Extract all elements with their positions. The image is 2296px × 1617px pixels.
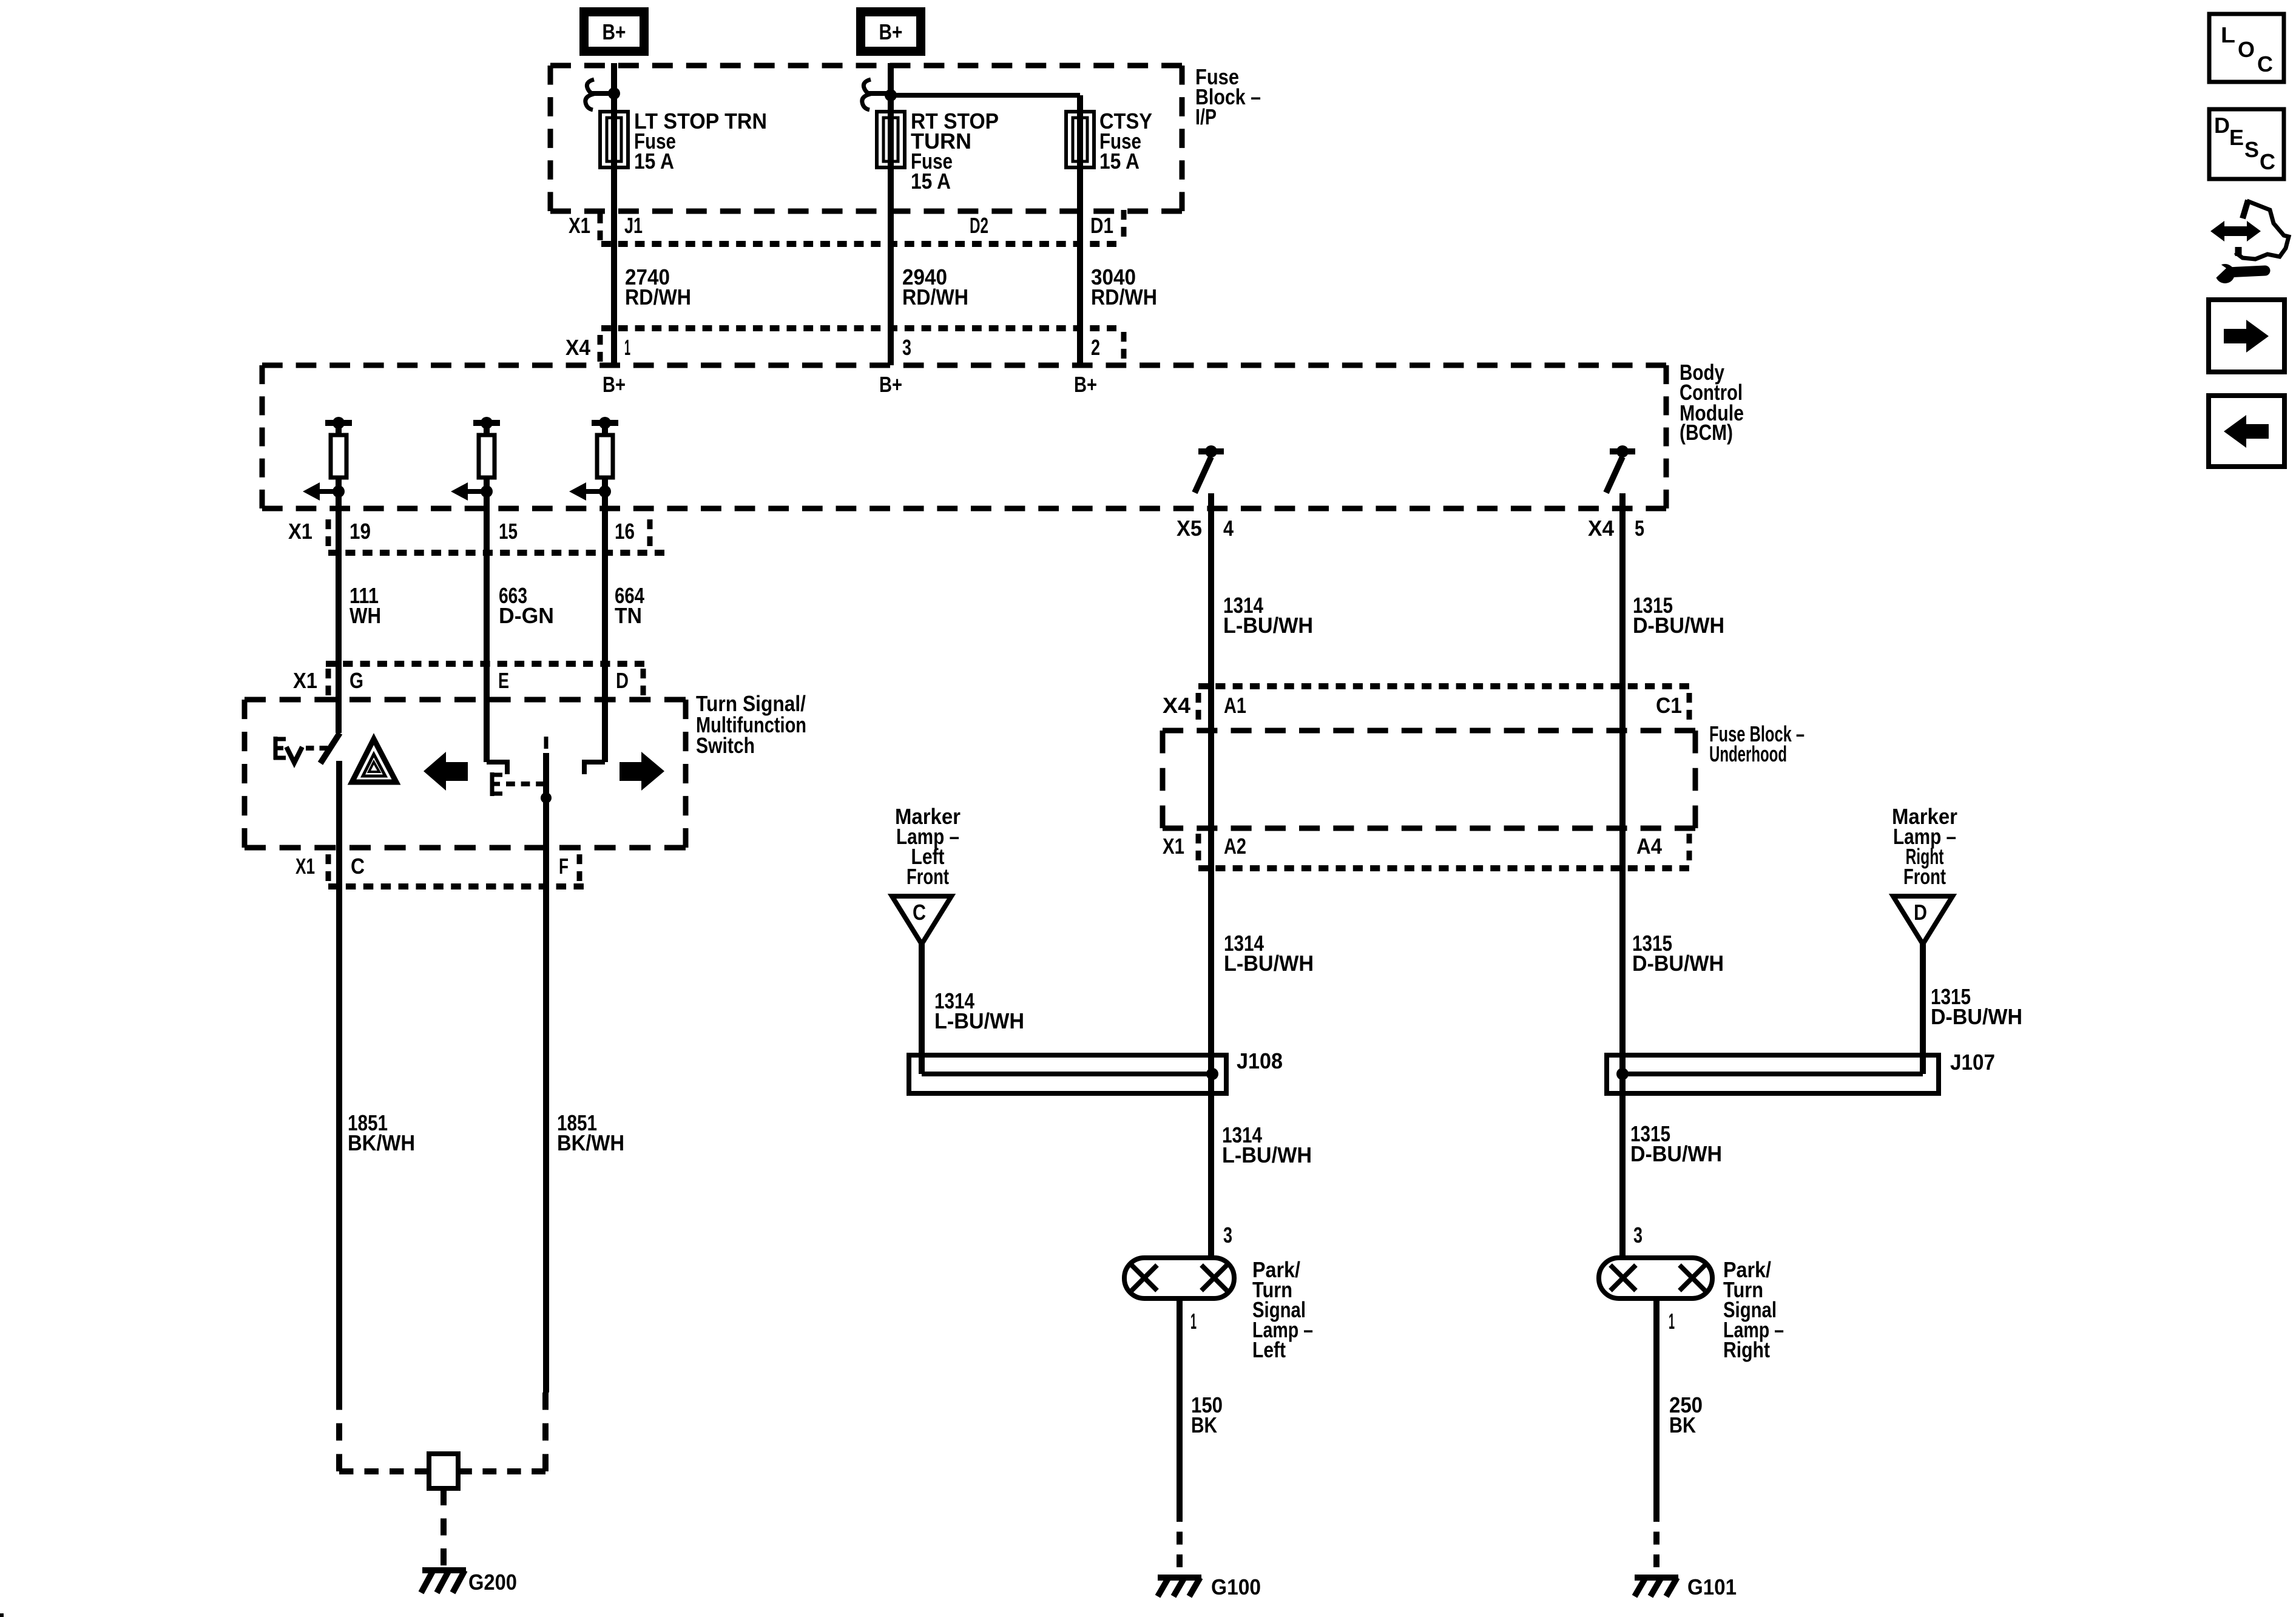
mechanical link dashes — [306, 746, 328, 751]
left-turn switch contact from pin E — [487, 760, 507, 765]
svg-text:X1: X1 — [293, 668, 317, 693]
underhood connector X4 dotted boundary — [1198, 683, 1689, 689]
wire 3040 RD/WH through CTSY fuse to BCM X4-2 — [1077, 95, 1083, 365]
svg-text:TN: TN — [615, 603, 642, 628]
svg-text:J107: J107 — [1950, 1050, 1995, 1075]
svg-text:3: 3 — [902, 335, 911, 360]
svg-text:B+: B+ — [879, 372, 902, 397]
svg-text:Front: Front — [1903, 864, 1946, 889]
right turn arrow (solid) — [620, 752, 664, 791]
junction J107 on wire 1315 — [1616, 1068, 1629, 1080]
svg-text:D-BU/WH: D-BU/WH — [1632, 951, 1724, 976]
svg-text:RD/WH: RD/WH — [625, 285, 691, 309]
svg-text:15 A: 15 A — [911, 169, 951, 194]
svg-text:D1: D1 — [1090, 213, 1113, 238]
svg-text:X4: X4 — [1163, 693, 1190, 718]
wire 1315 D-BU/WH from BCM X4-5 to park/turn lamp right — [1619, 493, 1626, 1258]
fuse holder clip at RT STOP TURN fuse — [862, 79, 871, 110]
svg-text:X1: X1 — [295, 854, 315, 879]
BCM internal driver output to pin 16 — [592, 420, 618, 426]
wire 150 BK from lamp left pin 1 — [1177, 1298, 1183, 1509]
wire 663 D-GN from BCM pin 15 to switch — [484, 511, 490, 762]
wire 2740 RD/WH from B+ through LT STOP TRN fuse to BCM X4-1 — [611, 63, 617, 365]
svg-text:C: C — [2257, 52, 2273, 76]
svg-text:J108: J108 — [1237, 1048, 1283, 1073]
svg-text:J1: J1 — [624, 213, 643, 238]
right tick marks — [641, 669, 646, 695]
sidebar LOC button — [2209, 14, 2284, 82]
dashed lead to G101 — [1653, 1509, 1660, 1567]
svg-text:L: L — [2221, 22, 2235, 47]
svg-text:L-BU/WH: L-BU/WH — [1222, 1143, 1312, 1167]
BCM internal switch to pin X5-4 — [1198, 448, 1224, 454]
svg-text:G101: G101 — [1687, 1575, 1737, 1599]
svg-text:C: C — [913, 900, 926, 925]
svg-text:B+: B+ — [1074, 372, 1097, 397]
dashed horizontal from splice — [458, 1468, 545, 1474]
wire branch to CTSY fuse — [891, 93, 1080, 98]
svg-text:G100: G100 — [1211, 1575, 1261, 1599]
svg-text:D: D — [616, 668, 629, 693]
svg-text:C: C — [351, 854, 365, 879]
svg-text:X1: X1 — [288, 519, 312, 544]
svg-text:C1: C1 — [1656, 693, 1682, 718]
right tick marks — [647, 519, 653, 546]
power terminal B+ (right) — [856, 7, 925, 56]
svg-text:BK/WH: BK/WH — [348, 1130, 415, 1155]
svg-text:Switch: Switch — [696, 733, 755, 758]
ground G200 — [422, 1567, 466, 1573]
svg-text:5: 5 — [1635, 516, 1644, 541]
mechanical link vertical dash — [544, 737, 549, 749]
svg-text:D-BU/WH: D-BU/WH — [1630, 1141, 1722, 1166]
connector X4 tick marks — [598, 335, 603, 362]
svg-text:X5: X5 — [1177, 516, 1202, 541]
svg-text:G: G — [349, 668, 363, 693]
left turn arrow (solid) — [424, 752, 468, 791]
junction at switch common — [541, 792, 552, 803]
Park/Turn Signal Lamp - Left (bulb) — [1124, 1258, 1234, 1298]
svg-text:(BCM): (BCM) — [1680, 420, 1733, 445]
svg-text:G200: G200 — [468, 1570, 517, 1595]
svg-text:1: 1 — [1190, 1309, 1197, 1334]
svg-text:A2: A2 — [1224, 834, 1246, 859]
stray mark — [0, 1613, 4, 1617]
junction J108 on wire 1314 — [1206, 1068, 1218, 1080]
svg-text:19: 19 — [349, 519, 371, 544]
BCM internal driver output to pin 19 — [325, 420, 352, 426]
svg-text:D: D — [2214, 113, 2230, 138]
TS switch lower connector dotted boundary — [328, 883, 584, 890]
power terminal B+ (left) — [579, 7, 649, 56]
TS switch connector X1 dotted boundary — [326, 661, 644, 667]
fuse LT STOP TRN 15A — [600, 112, 628, 167]
wire 250 BK from lamp right pin 1 — [1653, 1298, 1660, 1509]
sidebar back (left arrow) button — [2209, 396, 2284, 467]
svg-text:BK: BK — [1191, 1413, 1217, 1437]
wire 1851 BK/WH from switch common through pin F — [543, 753, 549, 1393]
wire 664 TN from BCM pin 16 to switch — [602, 511, 608, 762]
svg-text:O: O — [2238, 37, 2255, 62]
svg-text:L-BU/WH: L-BU/WH — [934, 1008, 1024, 1033]
Fuse Block - I/P dashed box — [550, 63, 1182, 69]
svg-text:X4: X4 — [1588, 516, 1614, 541]
wire 1851 BK/WH from hazard switch through pin C — [336, 761, 342, 1393]
svg-text:RD/WH: RD/WH — [1091, 285, 1157, 309]
marker lamp left front triangle connector C — [892, 896, 951, 944]
svg-text:BK/WH: BK/WH — [557, 1130, 624, 1155]
svg-text:L-BU/WH: L-BU/WH — [1224, 951, 1314, 976]
right tick marks — [1687, 693, 1692, 720]
svg-text:B+: B+ — [603, 372, 626, 397]
svg-text:D2: D2 — [970, 213, 988, 238]
svg-text:3: 3 — [1633, 1223, 1643, 1247]
svg-text:15 A: 15 A — [634, 149, 674, 174]
svg-text:1: 1 — [624, 335, 630, 360]
svg-text:F: F — [559, 854, 569, 879]
Fuse Block - Underhood dashed box — [1163, 728, 1695, 734]
connector X4 dotted boundary — [601, 325, 1116, 331]
sidebar next (right arrow) button — [2209, 300, 2284, 372]
junction at RT STOP TURN feed — [885, 89, 897, 101]
splice J108 — [909, 1055, 1226, 1093]
marker lamp right front triangle connector D — [1893, 896, 1953, 944]
BCM X1 connector dotted boundary — [328, 550, 664, 556]
svg-text:3: 3 — [1223, 1223, 1232, 1247]
svg-text:B+: B+ — [603, 19, 626, 44]
svg-text:Right: Right — [1723, 1337, 1770, 1362]
hazard warning triangle symbol — [352, 739, 396, 782]
svg-text:E: E — [2229, 125, 2244, 150]
svg-text:A1: A1 — [1224, 693, 1246, 718]
right tick marks — [1687, 834, 1692, 860]
ground G100 — [1158, 1575, 1201, 1581]
Body Control Module (BCM) dashed box — [262, 363, 1666, 368]
wire 1314 L-BU/WH from BCM X5-4 to park/turn lamp left — [1208, 493, 1214, 1258]
svg-text:D-BU/WH: D-BU/WH — [1931, 1004, 2022, 1029]
dashed lead to G100 — [1177, 1509, 1183, 1567]
svg-text:X1: X1 — [569, 213, 590, 238]
Turn Signal/Multifunction Switch dashed box — [245, 697, 686, 703]
svg-text:D-GN: D-GN — [499, 603, 554, 628]
wire 2940 RD/WH from B+ through RT STOP TURN fuse to BCM X4-3 — [888, 63, 894, 365]
fuse RT STOP TURN 15A — [877, 112, 905, 167]
splice/connector block — [429, 1454, 458, 1488]
svg-text:X4: X4 — [566, 335, 590, 360]
right tick marks — [577, 854, 582, 881]
connector X1 dotted boundary — [601, 241, 1116, 247]
svg-text:Front: Front — [907, 864, 949, 889]
sidebar diagnostic icon: double arrow, outline, wrench — [2210, 221, 2261, 241]
wire clip to junction — [866, 91, 891, 96]
svg-text:BK: BK — [1669, 1413, 1696, 1437]
wire 1314 from marker lamp C to splice J108 — [919, 944, 925, 1074]
svg-text:C: C — [2260, 149, 2275, 174]
wire 1315 from marker lamp D to splice J107 — [1920, 944, 1926, 1074]
BCM internal driver output to pin 15 — [473, 420, 500, 426]
svg-text:X1: X1 — [1163, 834, 1184, 859]
svg-text:A4: A4 — [1636, 834, 1662, 859]
connector X4 right tick marks — [1121, 332, 1127, 359]
svg-text:15: 15 — [499, 519, 518, 544]
svg-text:RD/WH: RD/WH — [902, 285, 968, 309]
svg-text:S: S — [2244, 137, 2259, 162]
dashed lead to splice — [542, 1393, 549, 1471]
svg-text:D: D — [1914, 900, 1927, 925]
tick marks — [1196, 693, 1201, 720]
turn signal lever symbol E — [490, 772, 495, 796]
fuse CTSY 15A — [1066, 112, 1094, 167]
fuse holder clip at LT STOP TRN fuse — [586, 79, 594, 110]
svg-text:Left: Left — [1252, 1337, 1286, 1362]
tick marks — [326, 854, 331, 881]
BCM internal switch to pin X4-5 — [1610, 448, 1635, 454]
svg-text:D-BU/WH: D-BU/WH — [1633, 613, 1724, 638]
wire 111 WH from BCM pin 19 to switch — [336, 511, 342, 733]
connector X1 tick marks — [598, 214, 603, 240]
dashed lead to ground — [441, 1488, 447, 1565]
sidebar DESC button — [2209, 109, 2284, 179]
dashed lead to splice — [336, 1393, 342, 1471]
tick marks — [326, 669, 331, 695]
svg-text:16: 16 — [615, 519, 635, 544]
svg-text:2: 2 — [1091, 335, 1100, 360]
right-turn switch contact from pin D — [584, 760, 605, 765]
junction at LT STOP TRN feed — [608, 87, 620, 100]
splice J107 — [1607, 1055, 1939, 1093]
svg-text:15 A: 15 A — [1099, 149, 1140, 174]
underhood lower connector dotted boundary — [1198, 865, 1689, 871]
svg-text:B+: B+ — [879, 19, 903, 44]
svg-text:E: E — [498, 668, 509, 693]
ground G101 — [1635, 1575, 1678, 1581]
hazard flasher symbol E with arrow — [274, 737, 278, 760]
connector X1 right tick marks — [1121, 210, 1127, 237]
dashed horizontal to splice — [339, 1468, 429, 1474]
tick marks — [1196, 834, 1201, 860]
svg-text:4: 4 — [1223, 516, 1234, 541]
svg-text:L-BU/WH: L-BU/WH — [1223, 613, 1313, 638]
svg-text:1: 1 — [1669, 1309, 1675, 1334]
mechanical link dashes — [506, 781, 545, 786]
tick marks — [326, 519, 331, 546]
hazard switch blade (pin G) — [320, 733, 340, 763]
svg-text:I/P: I/P — [1195, 104, 1217, 129]
Park/Turn Signal Lamp - Right (bulb) — [1599, 1258, 1712, 1298]
svg-text:WH: WH — [349, 603, 381, 628]
svg-text:Underhood: Underhood — [1709, 741, 1787, 766]
